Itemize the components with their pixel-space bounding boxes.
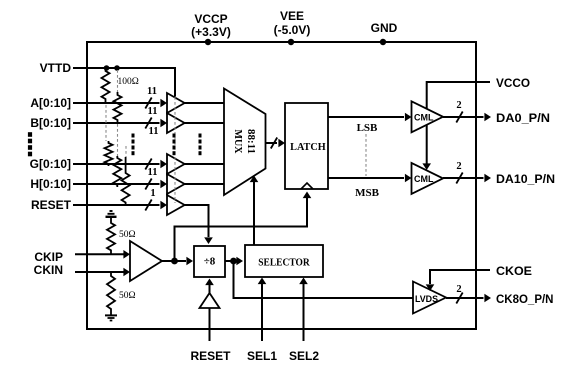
node VTTD-RB junction dot (114, 65, 120, 71)
ellipsis dots buffer column (173, 134, 176, 156)
wire VTTD rail (73, 68, 175, 97)
divider block /8 (194, 246, 225, 277)
wire DA10_P/N output (443, 177, 484, 179)
svg-text:CML: CML (414, 113, 434, 123)
wire SEL2 input (303, 283, 305, 341)
node VTTD-RA junction dot (104, 65, 110, 71)
input buffer A (167, 93, 185, 113)
wire bus G (73, 163, 160, 165)
svg-text:11: 11 (148, 167, 158, 178)
svg-text:DA0_P/N: DA0_P/N (496, 111, 550, 125)
wire CKIN (75, 271, 124, 273)
svg-text:11: 11 (147, 86, 157, 97)
node clock junction dot (171, 258, 178, 265)
wire reset buffer to divider (185, 205, 209, 237)
output buffer CML (DA10) (412, 163, 444, 194)
wire reset buffer apex to divider bottom (209, 284, 211, 293)
wire divider output to LVDS buffer (234, 261, 414, 298)
output buffer CML (DA0) (412, 101, 444, 132)
wire bus A (73, 102, 160, 104)
svg-text:2: 2 (456, 161, 461, 172)
input buffer RESET (167, 195, 185, 215)
wire bus H (73, 183, 160, 185)
ground symbol (105, 315, 117, 320)
input buffer H (167, 174, 185, 194)
node VCCP junction dot (205, 39, 211, 45)
ellipsis dots between B and G labels (28, 132, 32, 156)
svg-text:50Ω: 50Ω (119, 230, 136, 240)
wire clock buffer to divider (162, 260, 186, 262)
wire CML1 to CML2 supply (426, 125, 428, 164)
svg-text:÷8: ÷8 (204, 256, 216, 268)
svg-text:H[0:10]: H[0:10] (30, 177, 71, 191)
wire VCCO feed (427, 82, 490, 109)
wire LATCH LSB to CML (328, 116, 404, 118)
wire CK8O output (446, 297, 484, 299)
svg-text:SELECTOR: SELECTOR (258, 256, 310, 268)
input buffer G (167, 154, 185, 174)
dashed ellipsis between LSB and MSB (365, 134, 367, 176)
power pin VCCP label (191, 12, 231, 39)
resistor pull-up (G) (105, 141, 113, 166)
svg-text:2: 2 (456, 100, 461, 111)
ellipsis dots mux input column (199, 134, 202, 156)
svg-text:LATCH: LATCH (290, 141, 326, 153)
wire buffer A to MUX (185, 102, 224, 104)
wire LATCH MSB to CML (328, 177, 404, 179)
svg-text:G[0:10]: G[0:10] (30, 157, 71, 171)
svg-text:A[0:10]: A[0:10] (30, 96, 71, 110)
svg-text:(+3.3V): (+3.3V) (191, 25, 231, 39)
svg-text:DA10_P/N: DA10_P/N (496, 172, 555, 186)
svg-text:RESET: RESET (31, 198, 72, 212)
wire RESET bottom input (209, 308, 211, 341)
bus width slash G (145, 159, 151, 170)
wire clock to latch (175, 196, 308, 261)
wire dashed VTTD feed through buffers (174, 97, 176, 203)
wire buffer G to MUX (185, 163, 224, 165)
node divider output junction dot (230, 258, 237, 265)
selector block (245, 245, 323, 277)
svg-text:VCCP: VCCP (194, 12, 227, 26)
svg-text:RESET: RESET (190, 349, 231, 363)
wire dashed continuation RESET column (125, 146, 127, 157)
svg-text:SEL2: SEL2 (289, 349, 319, 363)
svg-text:LVDS: LVDS (415, 294, 438, 304)
svg-text:MSB: MSB (355, 187, 380, 199)
wire CKOE control (430, 270, 490, 284)
svg-text:CKOE: CKOE (496, 264, 532, 278)
resistor pull-up (RESET) (122, 157, 130, 206)
svg-text:CK8O_P/N: CK8O_P/N (496, 292, 554, 306)
bus width slash B (145, 118, 151, 129)
wire buffer H to MUX (185, 183, 224, 185)
svg-text:11: 11 (148, 106, 158, 117)
resistor 50 ohm (CKIP) (107, 218, 115, 254)
svg-text:(-5.0V): (-5.0V) (274, 23, 311, 37)
wire bus B (73, 122, 160, 124)
resistor pull-up (B) (114, 92, 122, 123)
chip boundary box (87, 42, 476, 329)
bus width slash DA0 (456, 112, 462, 123)
svg-text:100Ω: 100Ω (118, 77, 139, 87)
svg-text:VCCO: VCCO (496, 76, 530, 90)
wire CKIP (75, 253, 124, 255)
resistor 100 ohm pull-up (A) (102, 68, 110, 103)
reset input buffer (open triangle) (200, 293, 220, 308)
bus width slash H (145, 179, 151, 190)
svg-text:2: 2 (456, 284, 461, 295)
bus width slash DA10 (456, 173, 462, 184)
svg-text:SEL1: SEL1 (247, 349, 277, 363)
resistor pull-up (H) (113, 156, 121, 187)
output buffer LVDS (413, 282, 446, 314)
svg-text:GND: GND (371, 21, 398, 35)
svg-text:VEE: VEE (280, 9, 304, 23)
wire DA0_P/N output (443, 116, 484, 118)
clock input buffer (130, 241, 162, 281)
vtt termination symbol (inverted ground) (106, 211, 117, 217)
wire divider to selector (225, 260, 235, 262)
ellipsis dots resistor column (132, 134, 135, 156)
svg-text:50Ω: 50Ω (119, 291, 136, 301)
input buffer B (167, 113, 185, 133)
svg-text:CKIN: CKIN (34, 263, 63, 277)
wire SEL1 input (261, 283, 263, 341)
wire dashed lead (B) (117, 70, 119, 92)
svg-text:LSB: LSB (357, 122, 378, 134)
wire selector to MUX select (253, 180, 255, 245)
mux 88:11 (224, 89, 266, 196)
svg-text:11: 11 (149, 126, 159, 137)
wire buffer B to MUX (185, 122, 224, 124)
wire MUX to LATCH (266, 142, 278, 144)
resistor 50 ohm (CKIN) (107, 272, 115, 315)
svg-text:1: 1 (150, 188, 155, 199)
wire dashed continuation A column (105, 105, 107, 141)
svg-text:B[0:10]: B[0:10] (30, 116, 71, 130)
bus width slash CK8O (456, 293, 462, 304)
node GND junction dot (380, 39, 386, 45)
bus width slash RESET (145, 200, 151, 211)
latch block (285, 103, 328, 189)
wire dashed continuation B column (117, 124, 119, 156)
bus width slash A (145, 98, 151, 109)
power pin VEE label (274, 9, 311, 37)
svg-text:CML: CML (414, 174, 434, 184)
node VEE junction dot (288, 39, 294, 45)
bus width slash MUX output (271, 138, 277, 149)
svg-text:CKIP: CKIP (34, 250, 63, 264)
svg-text:88:11MUX: 88:11MUX (232, 129, 257, 154)
wire RESET input (73, 204, 160, 206)
svg-text:VTTD: VTTD (40, 61, 72, 75)
latch clock wedge (301, 183, 313, 189)
